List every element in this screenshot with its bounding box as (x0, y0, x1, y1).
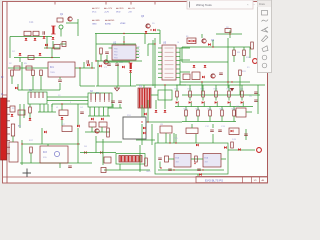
svg-text:358: 358 (205, 162, 208, 164)
svg-text:P0: P0 (138, 47, 140, 49)
svg-text:16: 16 (177, 42, 179, 44)
svg-text:GND: GND (92, 23, 97, 25)
svg-text:+12V: +12V (104, 11, 110, 13)
svg-text:EVO BL7S PS: EVO BL7S PS (205, 178, 223, 182)
svg-text:VREF: VREF (120, 23, 126, 25)
svg-text:C14: C14 (29, 21, 34, 24)
svg-text:P2: P2 (138, 53, 140, 55)
svg-text:P1: P1 (138, 50, 140, 52)
svg-text:AGND: AGND (108, 19, 115, 22)
svg-text:VDD: VDD (119, 8, 124, 10)
svg-text:AGND: AGND (105, 22, 112, 25)
svg-text:IC3: IC3 (43, 151, 47, 154)
svg-text:IN: IN (1, 77, 4, 79)
svg-text:7805: 7805 (50, 72, 56, 74)
svg-text:VCC: VCC (92, 11, 97, 13)
svg-text:GND: GND (95, 20, 100, 22)
svg-text:+12V: +12V (107, 8, 113, 10)
svg-text:358: 358 (176, 162, 179, 164)
svg-text:IC1: IC1 (50, 66, 54, 69)
svg-text:Draw: Draw (259, 3, 265, 6)
svg-text:PB3: PB3 (114, 58, 118, 60)
svg-text:PB2: PB2 (114, 55, 118, 57)
svg-text:+5V: +5V (131, 8, 135, 10)
svg-text:P3: P3 (138, 56, 140, 58)
svg-text:Wiring Tools: Wiring Tools (196, 3, 212, 7)
svg-text:+5V: +5V (128, 11, 132, 13)
svg-text:PB0: PB0 (114, 49, 118, 51)
svg-text:VCC: VCC (95, 8, 100, 10)
svg-text:PB1: PB1 (114, 52, 118, 54)
svg-text:VDD: VDD (116, 11, 121, 13)
svg-text:GND: GND (146, 171, 151, 173)
